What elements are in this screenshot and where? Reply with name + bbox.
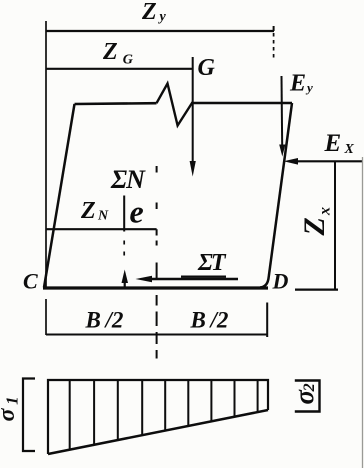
force line G (weight)	[192, 57, 194, 168]
stress diagram outline (trapezoid)	[48, 380, 268, 454]
label sigma1 (rotated)	[0, 396, 21, 421]
top edge right	[191, 102, 292, 105]
Z_x bottom tick	[295, 289, 338, 291]
label sigma2 (rotated)	[289, 383, 319, 404]
svg-text:D: D	[272, 269, 289, 294]
left extension line	[45, 21, 47, 335]
svg-text:B /2: B /2	[85, 308, 124, 333]
right extension below D	[266, 303, 268, 338]
svg-text:x: x	[317, 207, 334, 216]
svg-text:y: y	[305, 80, 313, 95]
hatch line 5	[164, 380, 166, 431]
left edge (slanted)	[44, 104, 75, 288]
arrowhead SigmaN (up)	[122, 270, 129, 284]
break (zigzag) in top edge	[157, 84, 193, 126]
svg-text:E: E	[324, 130, 342, 157]
hatch line 9	[257, 380, 259, 412]
svg-text:B /2: B /2	[190, 308, 229, 333]
arrowhead SigmaT (left)	[136, 276, 153, 283]
hatch line 1	[69, 380, 71, 450]
arrowhead G (down)	[190, 161, 196, 177]
svg-text:X: X	[344, 142, 355, 157]
svg-text:E: E	[289, 71, 306, 97]
svg-text:ΣT: ΣT	[197, 250, 227, 276]
hatch line 2	[93, 380, 95, 445]
sigma2 bracket	[295, 381, 320, 412]
SigmaT doubled stroke (scan artifact)	[181, 276, 226, 278]
page edge artifact	[362, 157, 364, 468]
svg-text:y: y	[158, 10, 167, 25]
force line E_y	[281, 76, 284, 148]
svg-text:2: 2	[301, 383, 318, 392]
resultant normal force line SigmaN	[123, 196, 125, 232]
SigmaN up-arrow shaft	[124, 278, 126, 289]
dimension line Z_y	[46, 30, 274, 32]
Z_y right dashed extension	[273, 26, 275, 31]
arrowhead E_y (down)	[279, 145, 285, 157]
centerline (dashed)	[156, 166, 158, 359]
dimension line Z_G	[46, 68, 193, 70]
hatch line 6	[187, 380, 189, 426]
arrowhead E_x (left)	[284, 158, 299, 165]
svg-text:ΣN: ΣN	[110, 165, 146, 194]
svg-text:1: 1	[2, 396, 21, 405]
hatch line 8	[234, 380, 236, 417]
svg-text:e: e	[130, 194, 144, 230]
shear force arrow SigmaT (leftward)	[150, 278, 238, 281]
svg-text:C: C	[23, 269, 38, 294]
svg-text:Z: Z	[141, 0, 157, 25]
bottom edge C-D	[43, 286, 268, 289]
svg-text:Z: Z	[102, 39, 118, 65]
svg-text:σ: σ	[0, 408, 20, 422]
SigmaN dashed continuation	[123, 241, 125, 259]
hatch line 4	[141, 380, 143, 435]
dimension line B/2 B/2	[46, 333, 267, 335]
right edge (slanted)	[260, 103, 292, 288]
svg-text:Z: Z	[80, 198, 96, 224]
sigma1 bracket	[23, 379, 35, 452]
label Z_x (rotated)	[298, 207, 334, 237]
stress diagram sloped bottom edge	[48, 410, 268, 454]
force arrow E_x (leftward)	[294, 160, 362, 162]
svg-text:G: G	[198, 55, 216, 81]
hatch line 3	[117, 380, 119, 440]
hatch line 7	[210, 380, 212, 421]
svg-text:N: N	[97, 209, 109, 224]
svg-text:Z: Z	[298, 217, 331, 236]
dam body outline: top edge left	[75, 102, 157, 105]
svg-text:G: G	[123, 53, 133, 68]
dimension line Z_N	[46, 228, 157, 230]
dimension line Z_x (vertical)	[334, 161, 336, 289]
